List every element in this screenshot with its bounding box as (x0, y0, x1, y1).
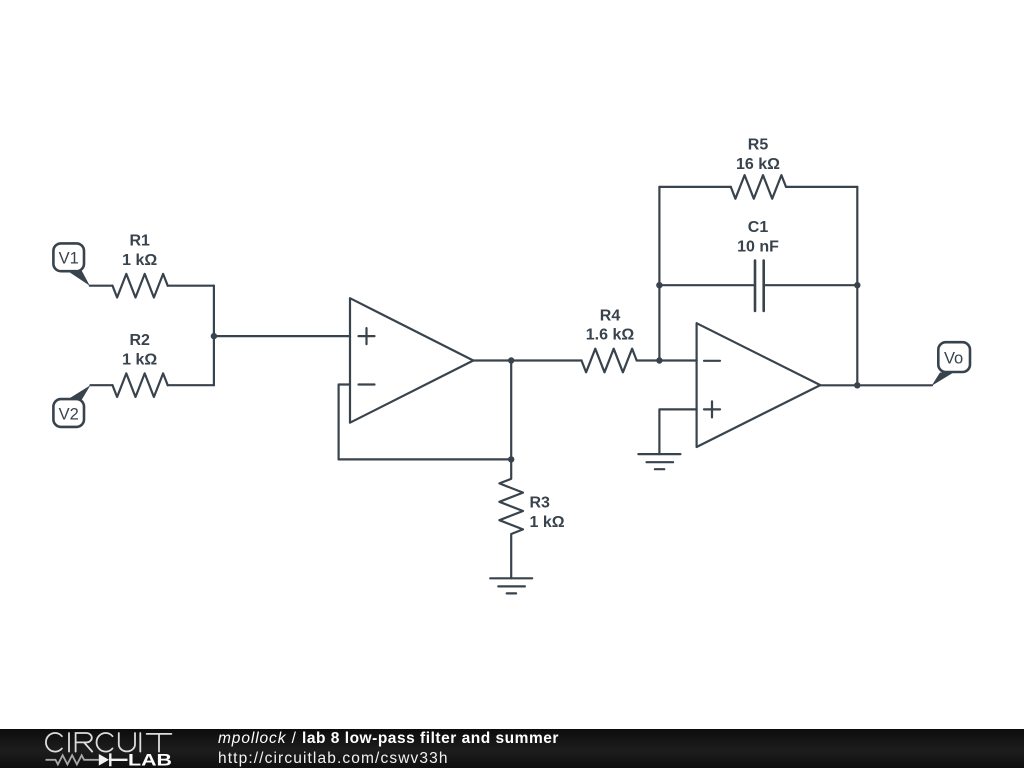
wire top feedback right segment (786, 186, 857, 188)
svg-text:1 kΩ: 1 kΩ (122, 351, 157, 368)
junction node C1 left (656, 282, 662, 288)
terminal flag V2 (53, 399, 84, 427)
junction node U1 output (508, 357, 514, 363)
svg-text:Vo: Vo (944, 350, 963, 368)
U1 plus sign (359, 328, 375, 344)
junction node C1 right (854, 282, 860, 288)
resistor R3 (499, 459, 523, 578)
wire U1 feedback down (510, 361, 512, 460)
ground below R3 (490, 578, 532, 593)
wire node up from R4 junction (658, 187, 660, 361)
svg-text:R1: R1 (129, 233, 150, 250)
svg-text:LAB: LAB (128, 751, 172, 768)
footer title line (218, 731, 559, 747)
junction node U2 output (854, 382, 860, 388)
U2 plus sign (704, 401, 720, 417)
Vo flag tail (932, 373, 954, 386)
svg-text:1.6 kΩ: 1.6 kΩ (586, 327, 635, 344)
resistor R4 (582, 349, 637, 373)
svg-text:R5: R5 (748, 137, 769, 154)
svg-text:R2: R2 (129, 332, 150, 349)
svg-text:16 kΩ: 16 kΩ (736, 156, 780, 173)
terminal flag V1 (53, 243, 84, 271)
wire V1 to R1 (90, 285, 113, 287)
junction node U1 feedback / R3 (508, 456, 514, 462)
wire top feedback left segment (659, 186, 730, 188)
logo diode (99, 754, 109, 766)
wire U1 output (473, 359, 511, 361)
ground at U2 plus input (638, 454, 680, 469)
capacitor C1 (755, 261, 764, 311)
U1 minus sign (359, 383, 375, 385)
wire R1 to bus (168, 285, 214, 287)
resistor R5 (731, 175, 786, 199)
U2 minus sign (704, 360, 720, 362)
logo wire and resistor (46, 755, 99, 764)
wire R2 to bus (168, 384, 214, 386)
wire C1 branch right (764, 284, 858, 286)
wire U2 plus input to ground (659, 409, 696, 454)
wire U1 output to R4 (511, 359, 581, 361)
V2 flag tail (67, 385, 91, 400)
wire U2 output (820, 384, 857, 386)
resistor R1 (113, 274, 168, 298)
CircuitLab logo (0, 729, 200, 768)
footer url line (218, 751, 449, 767)
wire C1 branch left (659, 284, 755, 286)
wire U1 feedback up to minus input (339, 385, 350, 460)
op-amp U1 (350, 298, 473, 423)
svg-text:V2: V2 (59, 405, 79, 423)
svg-text:C1: C1 (748, 219, 769, 236)
wire R4 to U2 minus input (637, 359, 697, 361)
V1 flag tail (67, 270, 90, 285)
wire summing bus vertical (213, 286, 215, 386)
resistor R2 (113, 373, 168, 397)
svg-text:R3: R3 (530, 495, 551, 512)
op-amp U2 (697, 323, 821, 447)
wire V2 to R2 (90, 384, 112, 386)
logo word CIRCUIT (thin stroked letters) (46, 733, 171, 752)
wire U1 feedback bottom (339, 458, 512, 460)
svg-text:1 kΩ: 1 kΩ (122, 252, 157, 269)
wire right feedback vertical (856, 187, 858, 385)
terminal flag Vo (938, 342, 970, 372)
wire output to Vo flag (857, 384, 932, 386)
svg-text:R4: R4 (600, 307, 621, 324)
svg-text:V1: V1 (59, 250, 79, 268)
svg-text:10 nF: 10 nF (737, 239, 779, 256)
wire bus to op-amp U1 plus input (214, 335, 350, 337)
junction node U2 minus input (656, 357, 662, 363)
svg-text:1 kΩ: 1 kΩ (530, 514, 565, 531)
footer bar (0, 729, 1024, 768)
junction node at summing bus (211, 333, 217, 339)
logo diode bar and wire (109, 753, 128, 766)
